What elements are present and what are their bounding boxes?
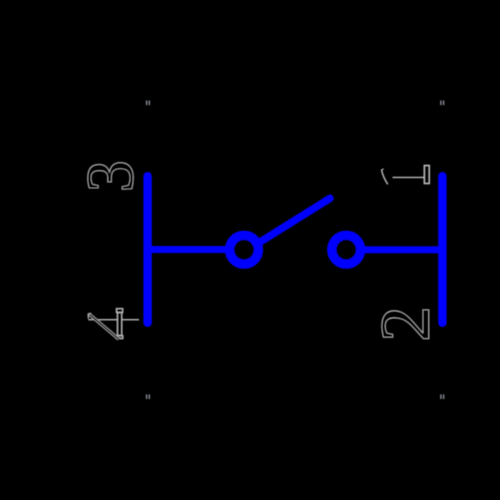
svg-text:3: 3 (74, 160, 148, 192)
switch S1 body (148, 176, 443, 323)
wire contact B to rail1 (364, 246, 440, 253)
pin rail right (pins 1,2) (438, 176, 446, 323)
pin 2 endpoint marker (440, 394, 444, 399)
pin rail left (pins 3,4) (143, 176, 151, 323)
contact circle B (332, 235, 361, 264)
pin number 1 (381, 165, 429, 184)
switch lever (250, 198, 330, 248)
pin 1 endpoint marker (440, 101, 444, 106)
svg-text:2: 2 (368, 306, 444, 341)
wire rail3 to contact A (150, 246, 227, 253)
pin 3 endpoint marker (146, 101, 150, 106)
contact circle A (230, 235, 259, 264)
pin number 4 (88, 309, 139, 340)
pin 4 endpoint marker (146, 394, 150, 399)
